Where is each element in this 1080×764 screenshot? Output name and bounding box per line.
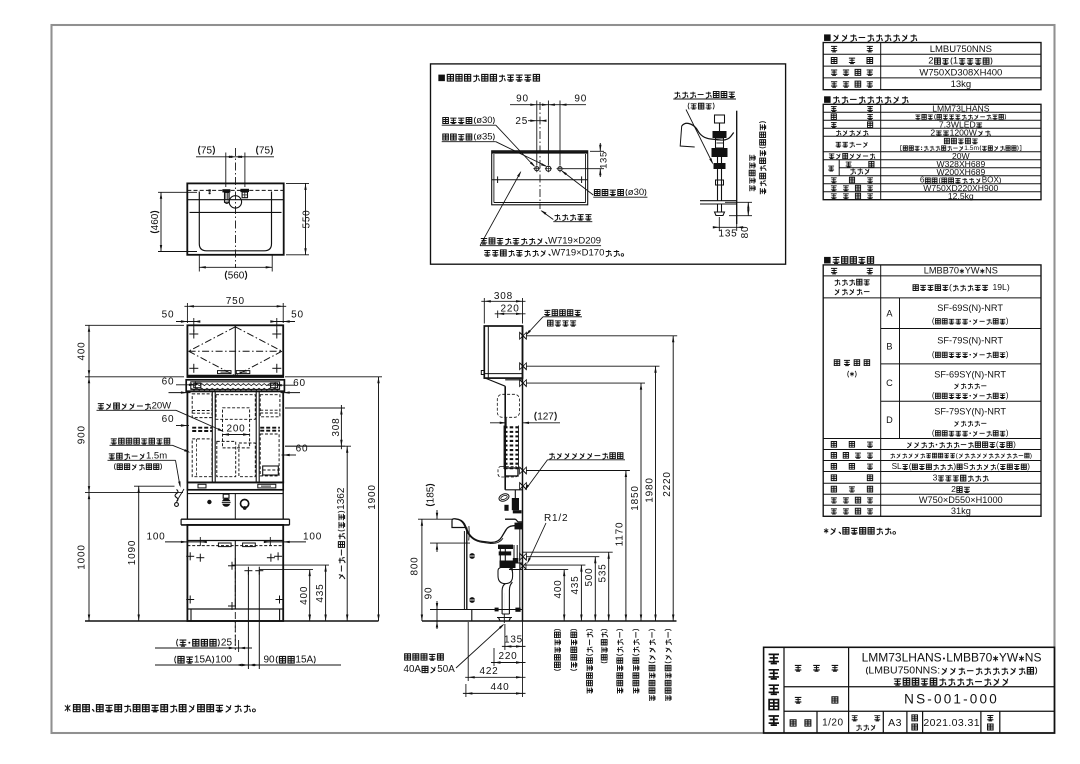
- svg-text:135: 135: [599, 151, 610, 169]
- svg-text:ø30: ø30: [628, 187, 644, 198]
- svg-text:1.5m: 1.5m: [964, 145, 979, 152]
- svg-text:(: (: [932, 429, 935, 438]
- svg-text:127: 127: [537, 412, 554, 423]
- svg-text:800: 800: [410, 556, 421, 575]
- svg-text:1200W: 1200W: [950, 127, 978, 137]
- svg-text:15A: 15A: [194, 655, 212, 666]
- svg-text:YW: YW: [965, 266, 980, 276]
- svg-text:LMBB70: LMBB70: [924, 266, 959, 276]
- svg-text:500: 500: [584, 567, 595, 586]
- svg-text:19L): 19L): [993, 282, 1010, 292]
- svg-text:NS: NS: [985, 266, 998, 276]
- svg-text:50A: 50A: [437, 664, 455, 675]
- svg-text:535: 535: [598, 563, 609, 582]
- svg-text:1900: 1900: [367, 484, 378, 509]
- svg-text:W750×D550×H1000: W750×D550×H1000: [919, 495, 1003, 505]
- svg-text:SF-69SY(N)-NRT: SF-69SY(N)-NRT: [934, 370, 1006, 380]
- svg-text:460: 460: [150, 213, 161, 230]
- svg-text:(: (: [932, 350, 935, 359]
- svg-text:): ): [1006, 317, 1009, 326]
- svg-text:400: 400: [77, 341, 88, 360]
- svg-text:ø35: ø35: [476, 132, 492, 143]
- svg-text:1/20: 1/20: [822, 718, 843, 729]
- svg-text:135: 135: [718, 229, 737, 240]
- svg-text:900: 900: [77, 425, 88, 444]
- svg-text:750: 750: [226, 296, 245, 307]
- svg-text:2: 2: [930, 127, 935, 137]
- svg-text:W719×D209: W719×D209: [548, 236, 601, 247]
- svg-text:W200XH689: W200XH689: [937, 167, 986, 177]
- svg-text:2: 2: [951, 484, 956, 494]
- svg-text:(: (: [949, 282, 952, 292]
- svg-text:B: B: [886, 341, 892, 351]
- svg-text:435: 435: [570, 575, 581, 594]
- svg-text:1000: 1000: [77, 544, 88, 569]
- svg-text:LMBB70: LMBB70: [946, 651, 992, 665]
- svg-text:15A: 15A: [295, 655, 313, 666]
- svg-text:C: C: [886, 378, 893, 388]
- svg-text:D: D: [886, 415, 893, 425]
- svg-text:W719×D170: W719×D170: [551, 248, 604, 259]
- svg-text:31kg: 31kg: [951, 506, 971, 516]
- svg-text:2220: 2220: [662, 471, 673, 496]
- svg-text:100: 100: [303, 532, 322, 543]
- svg-text:(: (: [909, 462, 912, 471]
- svg-text:560: 560: [228, 271, 245, 282]
- svg-text:1850: 1850: [630, 485, 641, 510]
- svg-text:308: 308: [494, 291, 513, 302]
- svg-text:60: 60: [162, 377, 175, 388]
- svg-text:): ): [1013, 440, 1016, 449]
- svg-text:220: 220: [498, 651, 517, 662]
- svg-text:90: 90: [516, 94, 529, 105]
- svg-text:1: 1: [953, 56, 958, 67]
- svg-text:60: 60: [162, 414, 175, 425]
- svg-text:60: 60: [296, 444, 309, 455]
- svg-text:LMM73LHANS: LMM73LHANS: [862, 651, 942, 665]
- svg-text:): ): [1006, 391, 1009, 400]
- svg-text:SL: SL: [892, 462, 902, 471]
- svg-text:25: 25: [515, 116, 528, 127]
- svg-text:A: A: [886, 308, 893, 318]
- svg-text:LMBU750NNS: LMBU750NNS: [930, 44, 992, 55]
- svg-text:(: (: [996, 440, 999, 449]
- svg-text:400: 400: [299, 586, 310, 605]
- svg-text:1362: 1362: [336, 487, 347, 510]
- svg-text:50: 50: [291, 310, 304, 321]
- svg-text:75: 75: [259, 146, 271, 157]
- svg-text:LMM73LHANS: LMM73LHANS: [932, 103, 990, 113]
- svg-text:3: 3: [933, 473, 938, 483]
- svg-text:550: 550: [302, 209, 313, 228]
- svg-text:90: 90: [264, 655, 276, 666]
- svg-text:1090: 1090: [127, 540, 138, 565]
- svg-text:SF-79S(N)-NRT: SF-79S(N)-NRT: [937, 336, 1003, 346]
- svg-text:SF-79SY(N)-NRT: SF-79SY(N)-NRT: [934, 407, 1006, 417]
- svg-text:185: 185: [426, 486, 437, 503]
- svg-text:): ): [1006, 350, 1009, 359]
- svg-text:100: 100: [215, 655, 232, 666]
- svg-text:400: 400: [553, 579, 564, 598]
- svg-text:1980: 1980: [644, 477, 655, 502]
- svg-text:200: 200: [226, 424, 245, 435]
- svg-text:(: (: [932, 317, 935, 326]
- svg-text:100: 100: [146, 532, 165, 543]
- svg-text:(: (: [997, 462, 1000, 471]
- svg-text:1170: 1170: [615, 522, 626, 547]
- svg-text:LMBU750NNS:: LMBU750NNS:: [868, 665, 940, 677]
- svg-text:12.5kg: 12.5kg: [948, 191, 974, 201]
- svg-text:): ): [1006, 429, 1009, 438]
- svg-text:50: 50: [162, 310, 175, 321]
- svg-text:NS-001-000: NS-001-000: [904, 692, 999, 707]
- svg-text:422: 422: [479, 666, 498, 677]
- svg-text:435: 435: [315, 584, 326, 603]
- svg-text:25: 25: [221, 638, 233, 649]
- svg-text:YW: YW: [999, 651, 1019, 665]
- svg-text:R1/2: R1/2: [544, 513, 568, 524]
- svg-text:135: 135: [504, 635, 523, 646]
- svg-text:440: 440: [490, 682, 509, 693]
- svg-text:308: 308: [331, 418, 342, 437]
- svg-text:75: 75: [201, 146, 213, 157]
- svg-text:A3: A3: [888, 717, 902, 729]
- svg-text:W750XD308XH400: W750XD308XH400: [919, 67, 1002, 78]
- svg-text:): ): [1030, 452, 1032, 459]
- svg-text:(: (: [932, 391, 935, 400]
- svg-text:60: 60: [293, 378, 306, 389]
- svg-text:ø30: ø30: [476, 115, 492, 126]
- svg-text:2: 2: [928, 56, 933, 67]
- svg-text:S: S: [963, 462, 969, 471]
- svg-text:90: 90: [424, 587, 435, 600]
- svg-text:220: 220: [501, 303, 520, 314]
- svg-text:NS: NS: [1025, 651, 1042, 665]
- svg-text:SF-69S(N)-NRT: SF-69S(N)-NRT: [937, 303, 1003, 313]
- svg-text:13kg: 13kg: [951, 79, 972, 90]
- svg-text:2021.03.31: 2021.03.31: [923, 717, 980, 729]
- svg-text:90: 90: [574, 94, 587, 105]
- svg-text:): ): [1027, 462, 1030, 471]
- svg-text:40A: 40A: [404, 664, 422, 675]
- svg-text:): ): [953, 462, 956, 471]
